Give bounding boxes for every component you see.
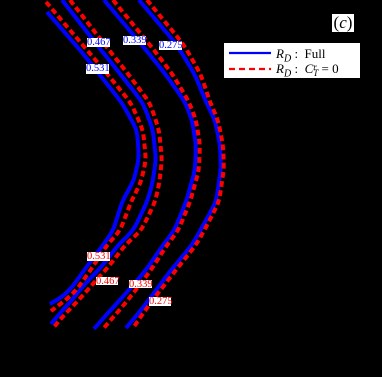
contour R_D CT=0 level 0.531 red dashed curve (46, 2, 146, 311)
legend text row1 (276, 46, 326, 65)
legend text row2 (276, 61, 339, 80)
contour R_D CT=0 level 0.275 red dashed curve (133, 0, 224, 328)
contour label blue 0.339 (123, 36, 146, 45)
contour R_D full level 0.467 blue curve (51, 0, 156, 324)
contour label red 0.275 (149, 297, 171, 306)
contour R_D full level 0.339 blue curve (94, 0, 196, 329)
legend box (224, 43, 360, 78)
contour R_D CT=0 level 0.339 red dashed curve (103, 0, 200, 329)
contour R_D full level 0.275 blue curve (126, 0, 221, 328)
contour label blue 0.531 (86, 64, 109, 74)
legend blue line sample (229, 52, 271, 54)
contour R_D full level 0.531 blue curve (47, 12, 139, 304)
contour label red 0.339 (129, 280, 152, 288)
contour R_D CT=0 level 0.467 red dashed curve (54, 0, 162, 327)
contour label red 0.531 (87, 252, 110, 261)
contour label blue 0.275 (159, 41, 182, 50)
legend red dashed line sample (229, 68, 271, 70)
panel tag (c) (332, 14, 354, 32)
contour label blue 0.467 (87, 38, 110, 47)
contour label red 0.467 (96, 277, 118, 285)
